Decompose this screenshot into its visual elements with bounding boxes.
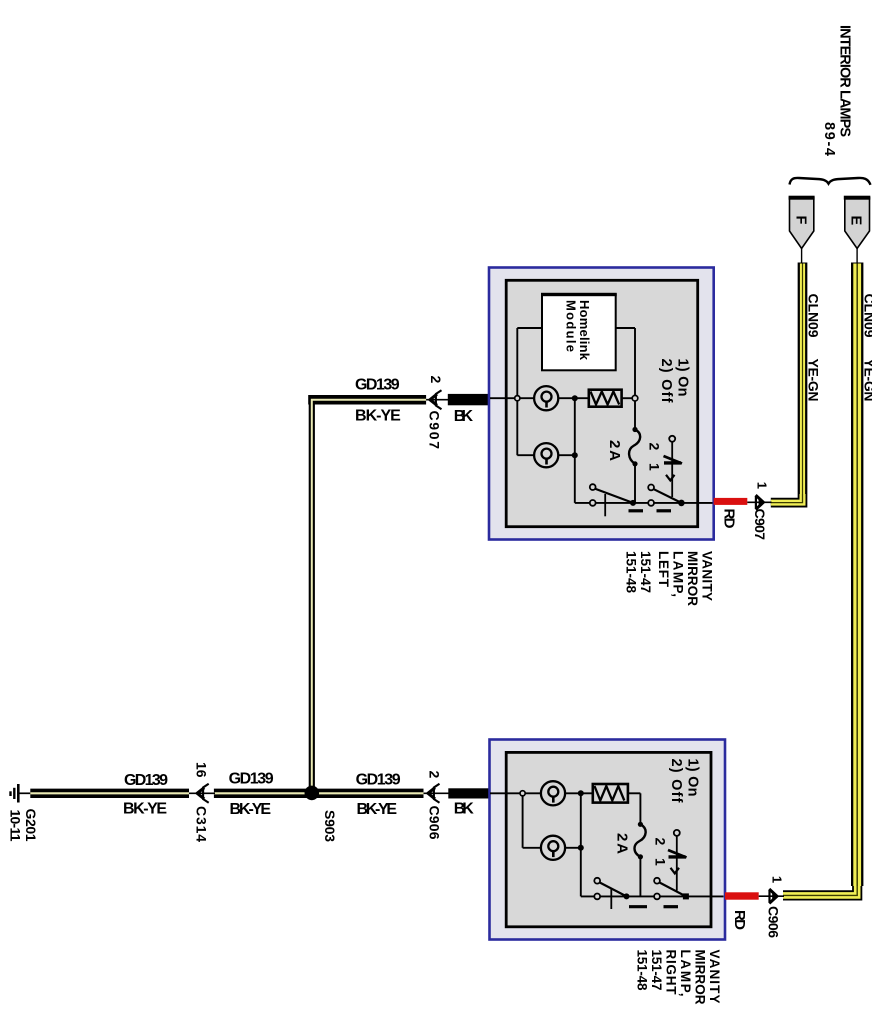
svg-text:BK: BK [454, 801, 474, 818]
svg-text:F: F [793, 216, 809, 225]
svg-text:1: 1 [647, 463, 663, 471]
svg-text:2A: 2A [606, 440, 623, 461]
svg-text:YE-GN: YE-GN [862, 359, 872, 402]
svg-text:GD139: GD139 [124, 772, 168, 789]
svg-text:2: 2 [653, 838, 669, 846]
svg-text:S903: S903 [322, 810, 338, 842]
svg-text:INTERIOR LAMPS: INTERIOR LAMPS [837, 25, 853, 137]
svg-text:LAMP,: LAMP, [678, 950, 693, 997]
svg-text:151-47: 151-47 [649, 950, 664, 991]
svg-text:BK-YE: BK-YE [230, 801, 272, 818]
svg-text:1) On: 1) On [675, 359, 691, 397]
svg-text:VANITY: VANITY [700, 551, 715, 601]
svg-text:151-48: 151-48 [635, 950, 650, 991]
svg-text:2: 2 [428, 376, 444, 384]
svg-text:1: 1 [770, 876, 785, 883]
svg-text:GD139: GD139 [355, 377, 400, 394]
svg-text:2) Off: 2) Off [658, 359, 674, 403]
svg-text:2: 2 [427, 771, 443, 779]
svg-text:2A: 2A [614, 833, 631, 854]
svg-text:10-11: 10-11 [8, 810, 24, 842]
svg-text:BK-YE: BK-YE [357, 801, 398, 818]
svg-text:GD139: GD139 [229, 771, 274, 788]
svg-text:C907: C907 [427, 411, 443, 450]
svg-text:RD: RD [721, 509, 738, 529]
svg-text:BK-YE: BK-YE [355, 407, 401, 424]
svg-text:GD139: GD139 [356, 772, 401, 789]
svg-text:MIRROR: MIRROR [685, 551, 700, 606]
svg-text:16: 16 [194, 762, 210, 778]
svg-text:BK-YE: BK-YE [123, 801, 167, 818]
svg-text:Module: Module [564, 300, 579, 352]
svg-text:RD: RD [731, 910, 748, 930]
svg-text:1) On: 1) On [685, 759, 701, 797]
svg-text:MIRROR: MIRROR [693, 950, 708, 1005]
svg-text:1: 1 [653, 858, 669, 866]
svg-text:89-4: 89-4 [821, 122, 837, 156]
svg-text:CLN09: CLN09 [806, 294, 822, 338]
svg-text:151-48: 151-48 [624, 551, 639, 593]
svg-text:BK: BK [454, 408, 474, 425]
svg-text:C314: C314 [194, 806, 210, 842]
svg-text:LAMP,: LAMP, [671, 551, 686, 597]
svg-text:2: 2 [647, 443, 663, 451]
svg-text:C907: C907 [752, 509, 768, 541]
svg-text:YE-GN: YE-GN [806, 359, 822, 402]
svg-text:1: 1 [755, 482, 770, 489]
svg-text:C906: C906 [427, 806, 443, 840]
svg-text:2) Off: 2) Off [668, 759, 684, 803]
svg-text:E: E [848, 216, 864, 226]
svg-text:CLN09: CLN09 [862, 294, 872, 338]
svg-text:LEFT: LEFT [656, 551, 671, 588]
svg-text:C906: C906 [766, 906, 782, 938]
svg-text:RIGHT: RIGHT [664, 950, 679, 996]
svg-text:151-47: 151-47 [638, 551, 653, 593]
svg-text:G201: G201 [23, 809, 39, 842]
